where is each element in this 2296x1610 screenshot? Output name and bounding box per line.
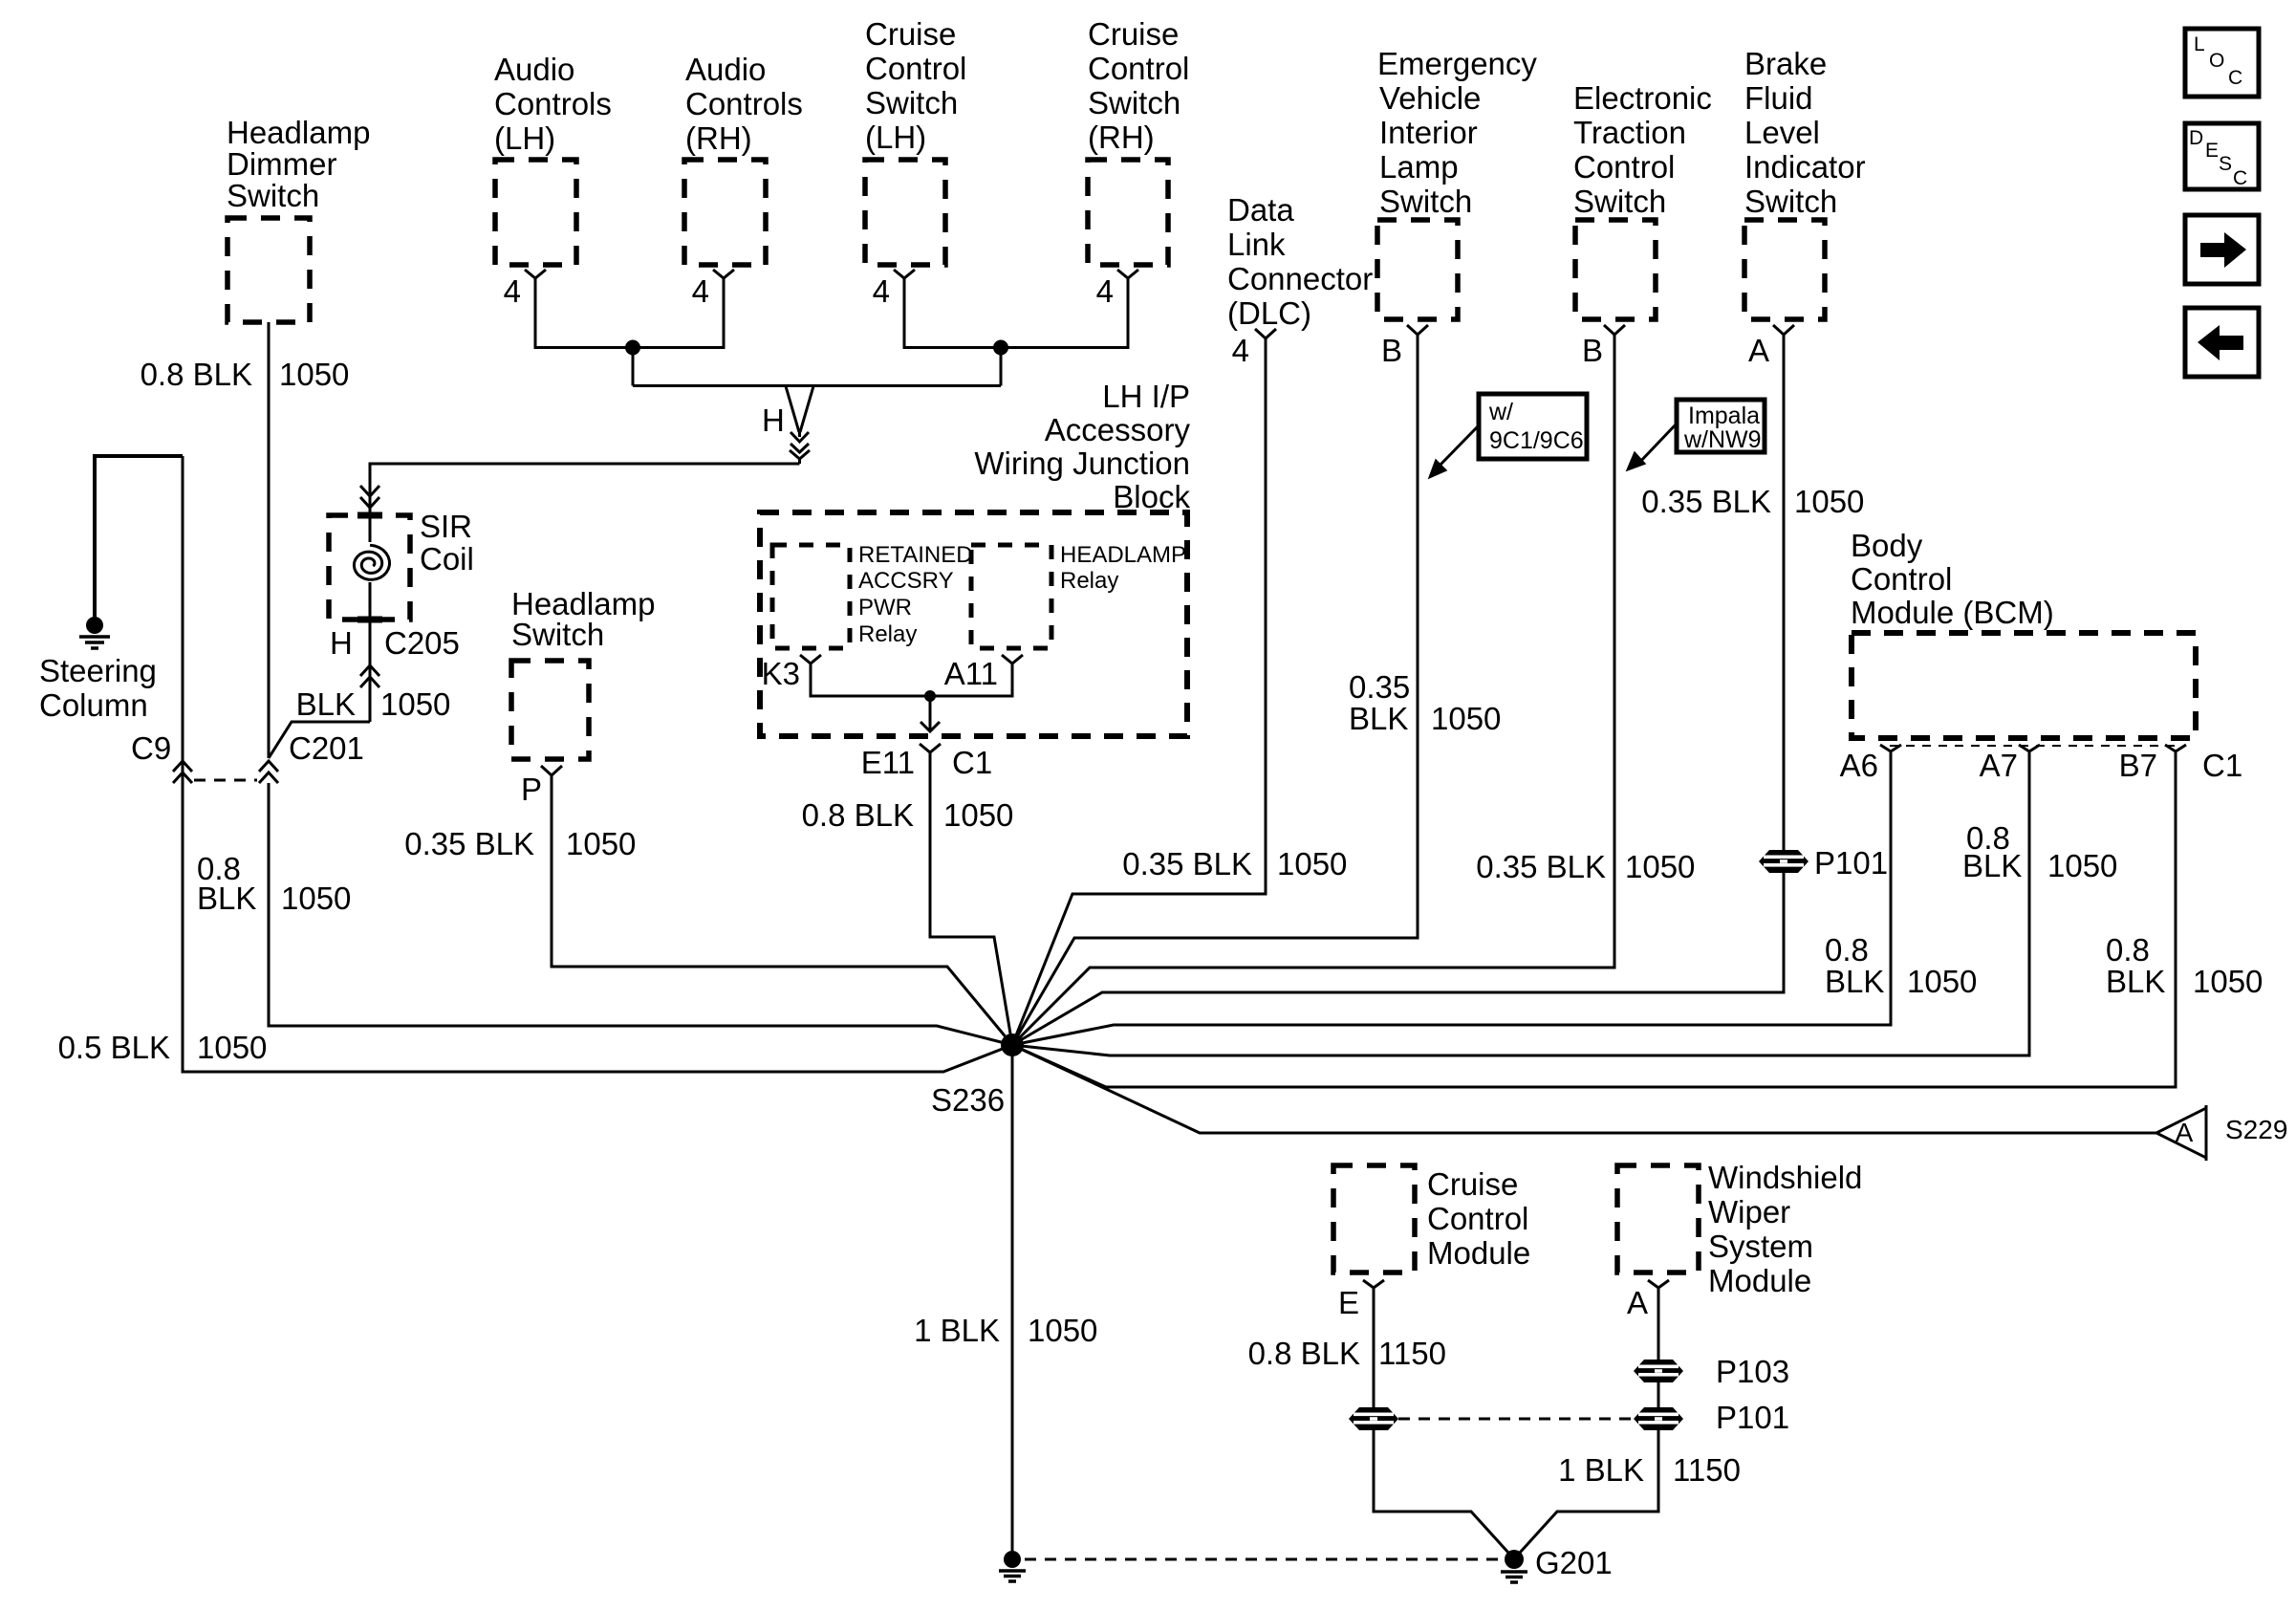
svg-text:Control: Control bbox=[1427, 1201, 1528, 1236]
svg-text:C205: C205 bbox=[384, 625, 460, 661]
wire dashed link C9 to C201 bbox=[194, 779, 257, 782]
svg-text:BLK: BLK bbox=[2106, 964, 2165, 999]
svg-text:1050: 1050 bbox=[2193, 964, 2263, 999]
svg-text:Module (BCM): Module (BCM) bbox=[1851, 595, 2054, 630]
svg-text:1050: 1050 bbox=[1907, 964, 1977, 999]
svg-text:4: 4 bbox=[692, 273, 709, 309]
svg-text:HEADLAMP: HEADLAMP bbox=[1060, 542, 1186, 568]
connector P101 grommet on BFLIS wire bbox=[1759, 850, 1809, 873]
svg-text:Link: Link bbox=[1227, 227, 1286, 262]
svg-text:Wiper: Wiper bbox=[1708, 1194, 1790, 1229]
ground dot steering column bbox=[86, 617, 103, 634]
svg-text:0.8 BLK: 0.8 BLK bbox=[1248, 1336, 1360, 1371]
svg-text:B: B bbox=[1582, 333, 1603, 368]
wire E11 to splice S236 bbox=[930, 752, 1012, 1045]
svg-text:A: A bbox=[1627, 1285, 1648, 1320]
wire C201 down to splice S236 bbox=[269, 783, 1012, 1045]
wire junction bus to SIR (double chevron down) bbox=[360, 464, 800, 542]
svg-text:1050: 1050 bbox=[380, 686, 450, 722]
svg-text:0.8: 0.8 bbox=[2106, 932, 2150, 968]
svg-text:0.5 BLK: 0.5 BLK bbox=[58, 1030, 170, 1065]
svg-text:Lamp: Lamp bbox=[1379, 149, 1459, 185]
component Cruise Control Module box bbox=[1333, 1165, 1415, 1273]
component Windshield Wiper System Module box bbox=[1617, 1165, 1699, 1273]
svg-text:w/NW9: w/NW9 bbox=[1683, 426, 1762, 453]
pin fork DLC pin 4 bbox=[1255, 329, 1276, 338]
wire DLC to splice S236 bbox=[1012, 338, 1266, 1045]
junction dot relay bus bbox=[924, 690, 936, 702]
dashed link P101 to P101 bbox=[1398, 1418, 1634, 1421]
wire ETCS B to splice S236 bbox=[1012, 335, 1614, 1045]
svg-text:Switch: Switch bbox=[1744, 184, 1837, 219]
svg-text:4: 4 bbox=[873, 273, 890, 309]
svg-text:C1: C1 bbox=[2202, 748, 2242, 783]
dashed connector strip below BCM bbox=[1890, 745, 2176, 747]
component Brake Fluid Level Indicator Switch box bbox=[1744, 220, 1825, 319]
wire BCM A7 to splice S236 bbox=[1012, 751, 2029, 1055]
component Audio Controls (RH) box bbox=[684, 160, 766, 265]
pin fork K3 bbox=[800, 655, 821, 664]
svg-text:Control: Control bbox=[1851, 561, 1952, 597]
svg-text:Fluid: Fluid bbox=[1744, 80, 1813, 116]
pin fork E11 C1 bbox=[920, 744, 941, 752]
component Audio Controls (LH) box bbox=[495, 160, 576, 265]
svg-text:Cruise: Cruise bbox=[1088, 16, 1179, 52]
svg-text:Switch: Switch bbox=[511, 617, 604, 652]
svg-text:1050: 1050 bbox=[1277, 846, 1347, 881]
legend box left arrow bbox=[2185, 308, 2259, 377]
pin fork Wiper Module A bbox=[1648, 1280, 1669, 1288]
svg-text:0.35: 0.35 bbox=[1349, 669, 1410, 705]
svg-text:Accessory: Accessory bbox=[1045, 412, 1191, 447]
component Headlamp Relay box bbox=[971, 545, 1051, 648]
wire cruise RH to junction dot bbox=[1001, 278, 1128, 348]
svg-text:Controls: Controls bbox=[685, 86, 803, 121]
component Headlamp Switch box bbox=[511, 661, 589, 759]
legend box DESC bbox=[2185, 123, 2259, 189]
svg-text:1 BLK: 1 BLK bbox=[914, 1313, 1000, 1348]
dashed link to G201 bbox=[1025, 1558, 1501, 1561]
svg-text:1050: 1050 bbox=[1625, 849, 1695, 884]
svg-text:ACCSRY: ACCSRY bbox=[858, 568, 954, 594]
svg-text:Connector: Connector bbox=[1227, 261, 1373, 296]
svg-text:D: D bbox=[2189, 127, 2203, 149]
svg-text:1050: 1050 bbox=[2047, 848, 2117, 883]
svg-text:(LH): (LH) bbox=[865, 120, 926, 155]
svg-text:Audio: Audio bbox=[685, 52, 766, 87]
svg-text:Windshield: Windshield bbox=[1708, 1160, 1862, 1195]
svg-text:C1: C1 bbox=[952, 745, 992, 780]
svg-text:0.35 BLK: 0.35 BLK bbox=[1641, 484, 1771, 519]
wire steering column ground lead bbox=[95, 456, 183, 618]
ground symbol steering column bbox=[79, 637, 110, 648]
svg-text:RETAINED: RETAINED bbox=[858, 542, 973, 568]
svg-text:H: H bbox=[330, 625, 353, 661]
svg-text:Column: Column bbox=[39, 687, 148, 723]
connector S229 triangle bbox=[2156, 1105, 2206, 1161]
wire to S229 connector bbox=[1012, 1045, 2156, 1133]
svg-text:BLK: BLK bbox=[296, 686, 356, 722]
svg-text:1050: 1050 bbox=[566, 826, 636, 861]
wire wiper module A to G201 bbox=[1520, 1288, 1658, 1553]
component Retained Accsry Pwr Relay box bbox=[772, 545, 850, 648]
svg-text:Switch: Switch bbox=[227, 178, 319, 213]
svg-text:Electronic: Electronic bbox=[1573, 80, 1712, 116]
connector C205 chevrons bbox=[360, 665, 379, 687]
svg-text:Audio: Audio bbox=[494, 52, 574, 87]
svg-text:Switch: Switch bbox=[1088, 85, 1180, 120]
svg-text:C201: C201 bbox=[289, 730, 364, 766]
svg-text:S: S bbox=[2219, 153, 2232, 175]
svg-text:Control: Control bbox=[1573, 149, 1675, 185]
svg-text:C: C bbox=[2228, 67, 2242, 89]
svg-text:Switch: Switch bbox=[865, 85, 958, 120]
component Cruise Control Switch (RH) box bbox=[1088, 160, 1168, 265]
wire S236 to ground bbox=[1011, 1045, 1014, 1551]
svg-text:Relay: Relay bbox=[858, 621, 917, 647]
svg-text:Cruise: Cruise bbox=[865, 16, 956, 52]
wire C201 to SIR coil branch bbox=[269, 722, 370, 758]
svg-text:Emergency: Emergency bbox=[1377, 46, 1537, 81]
svg-text:Coil: Coil bbox=[420, 541, 474, 577]
junction dot audio bus bbox=[625, 340, 640, 356]
legend box right arrow bbox=[2185, 215, 2259, 284]
svg-text:Controls: Controls bbox=[494, 86, 612, 121]
svg-text:4: 4 bbox=[504, 273, 521, 309]
wire BFLIS A to splice S236 bbox=[1012, 335, 1784, 1045]
svg-text:A6: A6 bbox=[1840, 748, 1878, 783]
svg-text:P101: P101 bbox=[1814, 845, 1888, 881]
svg-text:L: L bbox=[2194, 33, 2205, 55]
svg-text:Traction: Traction bbox=[1573, 115, 1686, 150]
pin fork Audio RH pin 4 bbox=[713, 270, 734, 278]
svg-text:1 BLK: 1 BLK bbox=[1558, 1452, 1644, 1488]
svg-text:BLK: BLK bbox=[1962, 848, 2022, 883]
svg-text:System: System bbox=[1708, 1229, 1813, 1264]
svg-text:Switch: Switch bbox=[1379, 184, 1472, 219]
svg-text:B7: B7 bbox=[2119, 748, 2157, 783]
wire tick crossing SIR box bottom bbox=[357, 617, 382, 623]
wire headlamp switch P to splice S236 bbox=[552, 775, 1012, 1045]
svg-text:w/: w/ bbox=[1488, 399, 1513, 425]
svg-text:BLK: BLK bbox=[1349, 701, 1408, 736]
pin fork BFLIS pin A bbox=[1773, 325, 1794, 335]
svg-text:Vehicle: Vehicle bbox=[1379, 80, 1481, 116]
ground dot G201 bbox=[1505, 1550, 1524, 1569]
ground symbol below S236 bbox=[999, 1571, 1026, 1581]
callout arrow Impala w/NW9 bbox=[1637, 424, 1677, 465]
connector C9 chevrons bbox=[173, 761, 192, 783]
svg-text:A: A bbox=[1748, 333, 1769, 368]
svg-text:Dimmer: Dimmer bbox=[227, 146, 336, 182]
coil spiral SIR bbox=[354, 545, 389, 579]
svg-text:1050: 1050 bbox=[197, 1030, 267, 1065]
svg-text:PWR: PWR bbox=[858, 595, 912, 620]
wire BCM B7/C1 to splice S236 bbox=[1012, 751, 2176, 1087]
pin fork Cruise Control Module E bbox=[1363, 1280, 1384, 1288]
svg-text:0.35 BLK: 0.35 BLK bbox=[1476, 849, 1606, 884]
svg-text:E: E bbox=[1338, 1285, 1359, 1320]
wire SIR coil exit to C205 bbox=[369, 582, 372, 722]
wire arrow from relay bus to block edge bbox=[921, 696, 940, 731]
callout arrow w/ 9C1/9C6 bbox=[1438, 425, 1479, 468]
svg-text:C9: C9 bbox=[131, 730, 171, 766]
component Headlamp Dimmer Switch box bbox=[227, 218, 310, 322]
svg-text:1050: 1050 bbox=[1028, 1313, 1097, 1348]
svg-text:Steering: Steering bbox=[39, 653, 157, 688]
wire cruise LH to junction dot bbox=[904, 278, 1001, 348]
component Emergency Vehicle Interior Lamp Switch box bbox=[1377, 220, 1458, 319]
svg-text:9C1/9C6: 9C1/9C6 bbox=[1489, 427, 1584, 454]
svg-text:Module: Module bbox=[1708, 1263, 1811, 1298]
svg-text:A11: A11 bbox=[944, 656, 998, 691]
svg-text:E11: E11 bbox=[861, 745, 915, 780]
svg-text:Level: Level bbox=[1744, 115, 1820, 150]
svg-text:A7: A7 bbox=[1980, 748, 2018, 783]
svg-text:Headlamp: Headlamp bbox=[227, 115, 370, 150]
pin fork Cruise LH pin 4 bbox=[894, 270, 915, 278]
svg-text:1050: 1050 bbox=[1431, 701, 1501, 736]
svg-text:G201: G201 bbox=[1535, 1545, 1613, 1580]
svg-text:Indicator: Indicator bbox=[1744, 149, 1866, 185]
pin fork ETCS pin B bbox=[1604, 325, 1625, 335]
svg-text:(RH): (RH) bbox=[685, 120, 752, 156]
connector P101 grommet on wiper wire bbox=[1634, 1407, 1683, 1430]
svg-text:S229: S229 bbox=[2225, 1115, 2287, 1144]
ground dot below S236 bbox=[1004, 1551, 1021, 1568]
pin fork A11 bbox=[1002, 655, 1023, 664]
svg-text:4: 4 bbox=[1096, 273, 1114, 309]
callout box w/ 9C1/9C6 bbox=[1479, 394, 1587, 459]
svg-text:(DLC): (DLC) bbox=[1227, 295, 1311, 331]
ground symbol G201 bbox=[1501, 1572, 1527, 1582]
svg-text:1050: 1050 bbox=[943, 797, 1013, 833]
component SIR Coil box bbox=[329, 515, 410, 620]
wire audio LH to junction dot bbox=[535, 278, 633, 348]
svg-text:BLK: BLK bbox=[1825, 964, 1884, 999]
svg-text:Data: Data bbox=[1227, 192, 1294, 228]
svg-text:C: C bbox=[2233, 167, 2247, 189]
svg-text:Block: Block bbox=[1113, 479, 1190, 514]
svg-text:BLK: BLK bbox=[197, 881, 256, 916]
wire headlamp dimmer switch to C201 bbox=[268, 322, 271, 758]
svg-text:S236: S236 bbox=[931, 1082, 1005, 1118]
component Body Control Module (BCM) box bbox=[1852, 633, 2196, 738]
callout box Impala w/NW9 bbox=[1677, 400, 1765, 452]
connector P101 grommet on cruise module wire bbox=[1349, 1407, 1398, 1430]
svg-text:4: 4 bbox=[1232, 333, 1249, 368]
junction dot cruise bus bbox=[993, 340, 1008, 356]
connector H funnel and chevrons bbox=[786, 386, 813, 464]
svg-text:P103: P103 bbox=[1716, 1354, 1789, 1389]
svg-text:0.35 BLK: 0.35 BLK bbox=[404, 826, 534, 861]
svg-text:Interior: Interior bbox=[1379, 115, 1478, 150]
component Cruise Control Switch (LH) box bbox=[865, 160, 945, 265]
svg-text:Module: Module bbox=[1427, 1235, 1530, 1271]
svg-text:SIR: SIR bbox=[420, 509, 472, 544]
wire audio RH to junction dot bbox=[633, 278, 724, 348]
connector C201 chevrons bbox=[259, 761, 278, 783]
wire bus audio+cruise to H connector bbox=[633, 348, 1001, 386]
svg-text:Brake: Brake bbox=[1744, 46, 1827, 81]
pin fork BCM A6 bbox=[1880, 745, 1901, 751]
wire C9 branch (0.5 BLK 1050) bbox=[183, 456, 1012, 1072]
svg-text:A: A bbox=[2176, 1118, 2194, 1147]
svg-text:Cruise: Cruise bbox=[1427, 1166, 1518, 1202]
pin fork P bbox=[541, 766, 562, 775]
svg-text:K3: K3 bbox=[762, 656, 800, 691]
svg-text:0.35 BLK: 0.35 BLK bbox=[1122, 846, 1252, 881]
svg-text:Control: Control bbox=[865, 51, 966, 86]
wire relay bus inside junction block bbox=[811, 664, 1012, 696]
svg-text:H: H bbox=[762, 402, 785, 438]
svg-text:1050: 1050 bbox=[1794, 484, 1864, 519]
svg-text:1050: 1050 bbox=[281, 881, 351, 916]
svg-text:E: E bbox=[2205, 140, 2219, 162]
svg-text:1050: 1050 bbox=[279, 357, 349, 392]
splice S236 dot bbox=[1001, 1033, 1024, 1056]
component LH I/P Accessory Wiring Junction Block outer box bbox=[760, 512, 1187, 736]
svg-text:LH I/P: LH I/P bbox=[1102, 379, 1190, 414]
wire EVILS B to splice S236 bbox=[1012, 335, 1418, 1045]
svg-text:O: O bbox=[2209, 50, 2224, 72]
wire tick crossing SIR box top bbox=[357, 512, 382, 519]
svg-text:0.8 BLK: 0.8 BLK bbox=[802, 797, 914, 833]
component Electronic Traction Control Switch box bbox=[1575, 220, 1656, 319]
svg-text:1150: 1150 bbox=[1378, 1336, 1446, 1371]
svg-text:0.8 BLK: 0.8 BLK bbox=[141, 357, 252, 392]
svg-text:Control: Control bbox=[1088, 51, 1189, 86]
pin fork Audio LH pin 4 bbox=[525, 270, 546, 278]
wire cruise control module E to G201 bbox=[1374, 1288, 1508, 1553]
pin fork Cruise RH pin 4 bbox=[1117, 270, 1138, 278]
svg-text:(RH): (RH) bbox=[1088, 120, 1155, 155]
svg-text:1150: 1150 bbox=[1673, 1452, 1741, 1488]
connector P103 grommet on wiper wire bbox=[1634, 1360, 1683, 1382]
svg-text:P101: P101 bbox=[1716, 1400, 1789, 1435]
svg-text:Impala: Impala bbox=[1688, 402, 1760, 429]
legend box LOC bbox=[2185, 29, 2259, 97]
pin fork BCM A7 bbox=[2019, 745, 2040, 751]
svg-text:Wiring Junction: Wiring Junction bbox=[974, 446, 1190, 481]
pin fork BCM B7 bbox=[2165, 745, 2186, 751]
svg-text:Switch: Switch bbox=[1573, 184, 1666, 219]
pin fork EVILS pin B bbox=[1407, 325, 1428, 335]
wire BCM A6 to splice S236 bbox=[1012, 751, 1891, 1045]
svg-text:0.8: 0.8 bbox=[1825, 932, 1869, 968]
svg-text:P: P bbox=[521, 772, 542, 807]
svg-text:Body: Body bbox=[1851, 528, 1923, 563]
svg-text:B: B bbox=[1381, 333, 1402, 368]
svg-text:Relay: Relay bbox=[1060, 568, 1118, 594]
svg-text:(LH): (LH) bbox=[494, 120, 555, 156]
